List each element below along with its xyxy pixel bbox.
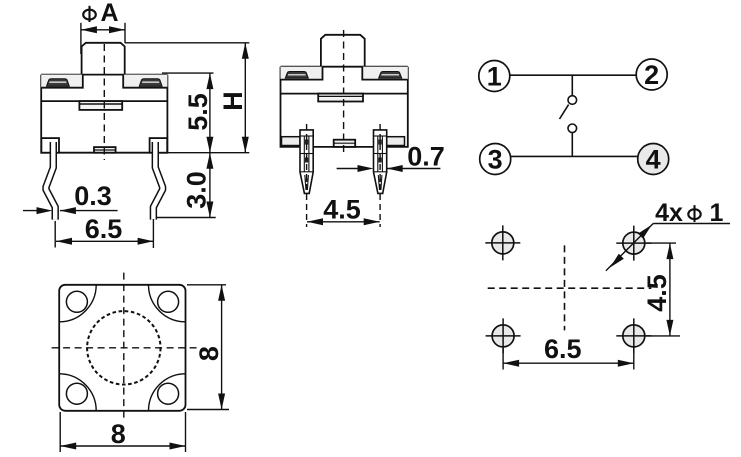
top view hole TR [158, 291, 179, 312]
arrows front view [37, 26, 249, 245]
6.5 left arrow [56, 238, 72, 245]
front view cap recess left [41, 75, 83, 88]
0.7 left-pointing arrow [387, 165, 403, 172]
side view cap recess left [281, 67, 323, 80]
top view dimensions [60, 285, 229, 452]
svg-text:2: 2 [644, 60, 659, 90]
wire 1-2 [510, 74, 636, 76]
4.5 right arrow [364, 218, 380, 225]
side view dimensions [307, 169, 440, 222]
dim 3.0 line [209, 153, 211, 218]
4.5 left arrow [307, 218, 323, 225]
H top arrow [242, 43, 249, 59]
ext line button top to H [125, 42, 250, 44]
top view dashed button circle [87, 311, 160, 384]
side view bottom center tab [334, 140, 356, 147]
svg-text:H: H [218, 91, 248, 111]
svg-text:8: 8 [111, 419, 126, 449]
dim 6.5 ext lines [54, 221, 56, 248]
pad top-right [616, 226, 651, 261]
side view pin left [300, 130, 313, 194]
ext line body top right [162, 72, 214, 74]
label 5.5 [183, 93, 213, 131]
switch arm [560, 105, 569, 119]
front view leg block left [41, 138, 59, 153]
terminal circle 1 [479, 61, 510, 92]
front view rivet lens left [47, 79, 70, 86]
side view cap recess right [362, 67, 408, 80]
8 right top arrow [218, 285, 225, 301]
front view left leg [46, 142, 55, 220]
dim 8 bottom line [60, 445, 185, 447]
svg-text:4.5: 4.5 [323, 195, 361, 225]
top view hole BR [158, 383, 179, 404]
ext line pad BR down [633, 348, 635, 370]
ext line top right [187, 284, 226, 286]
front view center dashed line [103, 44, 105, 160]
8 right bottom arrow [218, 394, 225, 410]
label H [218, 91, 248, 111]
0.3 right-pointing arrow [37, 207, 53, 214]
svg-text:0.7: 0.7 [407, 142, 445, 172]
top view corner arc BL [59, 374, 96, 411]
callout underline [653, 223, 730, 225]
8 bottom left arrow [60, 443, 76, 450]
3.0 top arrow [206, 153, 213, 169]
4.5 top arrow [666, 243, 673, 259]
top view body square [59, 285, 185, 411]
4.5 bottom arrow [666, 320, 673, 336]
svg-text:4: 4 [646, 145, 661, 175]
side view tab under mid line [318, 94, 363, 102]
6.5 right arrow [138, 238, 154, 245]
top view corner arc TR [149, 285, 186, 322]
wire bottom stub [571, 133, 573, 157]
ext line pin bottom [157, 217, 216, 219]
dim 4.5 line [307, 221, 380, 223]
terminal circle 2 [636, 59, 667, 90]
footprint dim lines [503, 243, 680, 369]
label 8 right [194, 346, 224, 361]
dim H line [244, 43, 246, 153]
label 3.0 [182, 171, 212, 209]
side view pin right [374, 130, 387, 194]
pad top-left [485, 225, 520, 260]
6.5 right arrow [618, 360, 634, 367]
front view right leg [153, 142, 162, 220]
side view leg bar right [386, 137, 405, 146]
pad bottom-right [616, 318, 651, 353]
top view dashed crosshair vertical [123, 273, 125, 421]
switch contact upper [568, 96, 577, 105]
footprint dashed crosshair vertical [564, 245, 566, 330]
ext line bottom right2 [185, 412, 187, 452]
terminal circle 3 [480, 144, 511, 175]
front view mid line [41, 100, 167, 102]
ext line bottom left [59, 412, 61, 452]
callout 4x phi1 leader [606, 224, 653, 271]
svg-text:5.5: 5.5 [183, 93, 213, 131]
dim phiA extension lines [80, 23, 82, 54]
svg-text:8: 8 [194, 346, 224, 361]
ext line pad BL down [502, 348, 504, 370]
svg-text:1: 1 [710, 199, 724, 227]
dim phiA line [81, 29, 125, 31]
label 4.5 footprint [642, 274, 672, 312]
H bottom arrow [242, 137, 249, 153]
svg-text:1: 1 [487, 62, 502, 92]
wire top stub [571, 75, 573, 95]
front view button stem [82, 43, 125, 75]
svg-text:4x: 4x [655, 199, 683, 227]
side view pin dashed centerline right [379, 124, 381, 227]
top view corner arc TL [59, 285, 96, 322]
side view mid line [281, 93, 408, 95]
ext line bottom right [187, 409, 229, 411]
svg-text:3: 3 [488, 145, 503, 175]
side view button stem [321, 35, 365, 67]
top view hole BL [66, 383, 87, 404]
ext line pad TR right [646, 242, 676, 244]
svg-text:0.3: 0.3 [74, 181, 112, 211]
5.5 bottom arrow [206, 137, 213, 153]
front view cap top line [41, 74, 167, 76]
front view bottom center tab [94, 147, 116, 153]
dim 0.3 tails [23, 210, 41, 212]
dim 5.5 line [209, 73, 211, 153]
dim 4.5 line [669, 243, 671, 336]
8 bottom right arrow [170, 443, 186, 450]
ext line pad BR right [646, 335, 680, 337]
dim 8 right line [221, 285, 223, 410]
6.5 left arrow [503, 360, 519, 367]
phiA left arrow [81, 26, 97, 33]
dim 6.5 line [503, 362, 634, 364]
front view leg block right [150, 138, 168, 153]
top view dashed crosshair horizontal [52, 347, 198, 349]
pad bottom-left [486, 318, 521, 353]
side view leg bar left [282, 137, 301, 146]
front view cap recess right [123, 75, 167, 88]
dim 6.5 line [56, 240, 154, 242]
0.7 right-pointing arrow [358, 165, 374, 172]
0.3 left-pointing arrow [60, 207, 76, 214]
terminal circle 4 [638, 144, 669, 175]
front view body outline [41, 75, 167, 153]
top view hole TL [66, 291, 87, 312]
side view rivet lens right [379, 72, 402, 79]
3.0 bottom arrow [206, 202, 213, 218]
front view tab under mid line [79, 101, 122, 110]
wire 3-4 [511, 155, 638, 157]
side view rivet lens left [285, 72, 308, 79]
svg-text:A: A [100, 0, 118, 27]
svg-text:3.0: 3.0 [182, 171, 212, 209]
phiA right arrow [109, 26, 125, 33]
side view pin dashed centerline left [306, 124, 308, 227]
side view cap top line [281, 66, 408, 68]
footprint dashed crosshair horizontal [488, 287, 652, 289]
top view corner arc BR [149, 374, 186, 411]
switch contact lower [568, 124, 577, 133]
label phi A : custom phi glyph [83, 10, 96, 20]
svg-text:6.5: 6.5 [85, 214, 123, 244]
svg-text:4.5: 4.5 [642, 274, 672, 312]
svg-text:6.5: 6.5 [544, 334, 582, 364]
leader arrow lower [610, 254, 624, 268]
front view rivet lens right [139, 79, 162, 86]
side view body outline [281, 67, 408, 147]
dim 0.7 tails [337, 168, 358, 170]
leader arrow upper [638, 225, 652, 239]
5.5 top arrow [206, 73, 213, 89]
ext line body bottom right [167, 152, 249, 154]
side view center dashed line [343, 30, 345, 155]
